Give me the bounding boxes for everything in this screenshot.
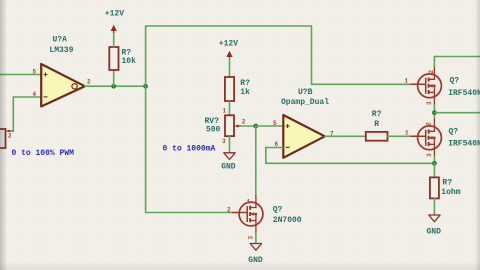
wire U1A +input from left edge (0, 74, 41, 76)
junction setpoint node (253, 124, 258, 129)
svg-text:1k: 1k (240, 88, 250, 97)
resistor R3 (gate resistor) (366, 132, 388, 141)
wire Q1 drain rail to right edge (434, 56, 480, 58)
wire Q2 source to sense junction (433, 157, 435, 164)
svg-text:Opamp_Dual: Opamp_Dual (281, 98, 329, 107)
svg-text:+12V: +12V (105, 9, 124, 18)
potentiometer RV (edge, cut off) (0, 129, 13, 148)
svg-text:LM339: LM339 (49, 46, 73, 55)
wire R4 to GND (433, 198, 435, 214)
wire U1A -input horizontal (13, 96, 41, 98)
wire U1B output (325, 135, 366, 137)
svg-text:2: 2 (242, 119, 246, 126)
wire setpoint drop to Q3 drain (255, 126, 257, 195)
wire R1 bottom (113, 70, 115, 86)
svg-text:1: 1 (405, 130, 409, 137)
junction sense node (432, 161, 437, 166)
wire sense node to R4 (433, 163, 435, 177)
wire U1B -input (266, 147, 283, 149)
ground below R4 (429, 215, 440, 222)
svg-text:+12V: +12V (219, 39, 238, 48)
svg-text:0 to 1000mA: 0 to 1000mA (163, 144, 216, 153)
svg-text:5: 5 (33, 69, 37, 76)
wire R1 top to +12V (113, 33, 115, 48)
svg-text:3: 3 (426, 153, 433, 157)
wire +12V to R2 (229, 59, 231, 78)
wire down to Q1 gate level (311, 26, 313, 84)
power +12V symbol (left) (111, 25, 117, 33)
wire RV1 to GND (229, 136, 231, 153)
resistor R1 10k (109, 47, 118, 70)
wire Q3 source to GND (255, 233, 257, 243)
wire PWM drop from rail junction (145, 86, 147, 212)
svg-text:2: 2 (87, 79, 91, 86)
svg-text:R?: R? (442, 179, 452, 188)
wire feedback vertical (265, 148, 267, 164)
svg-text:1: 1 (247, 199, 251, 206)
svg-text:1: 1 (223, 108, 227, 115)
wire R3 to Q2 gate (388, 135, 411, 137)
wire mid rail to right edge (434, 112, 480, 114)
wire U1A -input vertical drop to edge pot (12, 97, 14, 131)
transistor Q3 2N7000 (232, 195, 263, 233)
ground below Q3 (250, 244, 261, 251)
svg-text:500: 500 (206, 125, 221, 134)
svg-text:Q?: Q? (273, 206, 283, 215)
op-amp U1A LM339 (41, 64, 85, 107)
junction at rail corner (143, 84, 148, 89)
svg-text:10k: 10k (122, 57, 137, 66)
transistor Q2 IRF540N (411, 119, 442, 157)
wire feedback horizontal to sense node (266, 162, 435, 164)
wire Q1 source to mid junction (433, 105, 435, 119)
wire U1A output rail (85, 85, 146, 87)
svg-text:3: 3 (248, 236, 255, 240)
wire wiper to junction (241, 125, 256, 127)
svg-text:2: 2 (428, 70, 435, 74)
svg-text:U?B: U?B (298, 88, 313, 97)
svg-text:0 to 100% PWM: 0 to 100% PWM (12, 149, 75, 158)
junction at R1 bottom (111, 84, 116, 89)
op-amp U1B Opamp_Dual (283, 115, 325, 158)
resistor R2 1k (225, 77, 234, 101)
wire to Q1 gate (312, 83, 411, 85)
svg-text:GND: GND (427, 228, 442, 237)
junction mid rail (432, 110, 437, 115)
ground below RV1 (224, 153, 235, 160)
svg-text:2: 2 (426, 122, 433, 126)
svg-text:R?: R? (240, 79, 250, 88)
wire R2 to RV1 (229, 101, 231, 115)
svg-text:Q?: Q? (450, 76, 460, 85)
wire rail up from junction (145, 26, 147, 86)
svg-text:2: 2 (8, 133, 12, 140)
svg-text:R?: R? (372, 110, 382, 119)
svg-text:1: 1 (405, 78, 409, 85)
svg-text:Q?: Q? (449, 128, 459, 137)
svg-text:2: 2 (227, 207, 231, 214)
svg-text:3: 3 (222, 138, 226, 145)
transistor Q1 IRF540N (411, 67, 442, 105)
svg-text:GND: GND (221, 162, 236, 171)
power +12V symbol (middle) (226, 51, 232, 59)
svg-text:3: 3 (426, 101, 433, 105)
svg-text:1ohm: 1ohm (441, 188, 460, 197)
svg-text:2N7000: 2N7000 (273, 216, 302, 225)
wire junction to U1B +input (256, 125, 283, 127)
wire to Q3 gate (146, 212, 232, 214)
wire Q1 drain vertical (433, 57, 435, 68)
svg-text:R: R (374, 120, 379, 129)
wire top rail horizontal (146, 25, 312, 27)
svg-text:U?A: U?A (53, 36, 68, 45)
svg-text:5: 5 (273, 120, 277, 127)
potentiometer RV1 500 (225, 115, 241, 136)
svg-text:4: 4 (33, 91, 37, 98)
resistor R4 1ohm (430, 177, 439, 198)
